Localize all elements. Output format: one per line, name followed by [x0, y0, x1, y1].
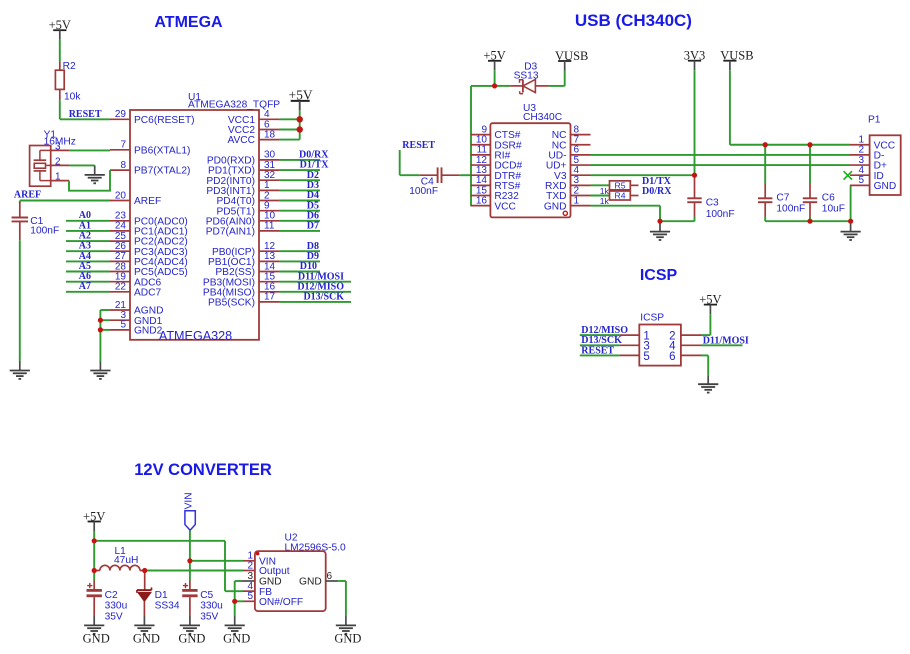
svg-text:R5: R5	[615, 180, 626, 190]
svg-text:RESET: RESET	[402, 140, 435, 151]
svg-text:17: 17	[264, 292, 276, 303]
svg-text:10k: 10k	[64, 91, 81, 102]
svg-text:ON#/OFF: ON#/OFF	[259, 597, 303, 608]
svg-text:GND: GND	[334, 632, 361, 646]
svg-text:PB5(SCK): PB5(SCK)	[208, 298, 255, 309]
svg-text:A7: A7	[79, 281, 91, 292]
svg-text:8: 8	[120, 160, 126, 171]
svg-text:D1: D1	[155, 590, 168, 601]
svg-text:12V CONVERTER: 12V CONVERTER	[134, 461, 272, 479]
svg-text:5: 5	[858, 175, 864, 186]
svg-text:C7: C7	[776, 192, 789, 203]
svg-text:SS13: SS13	[514, 71, 539, 82]
svg-text:D7: D7	[307, 221, 319, 232]
svg-text:PC6(RESET): PC6(RESET)	[134, 115, 195, 126]
svg-text:GND: GND	[133, 632, 160, 646]
svg-text:R2: R2	[63, 61, 76, 72]
svg-text:ICSP: ICSP	[640, 313, 664, 324]
svg-text:2: 2	[55, 156, 61, 167]
svg-text:6: 6	[327, 571, 333, 582]
svg-text:AREF: AREF	[14, 190, 41, 201]
svg-text:D0/RX: D0/RX	[642, 186, 672, 197]
svg-text:GND: GND	[299, 577, 322, 588]
svg-text:29: 29	[115, 109, 127, 120]
svg-text:35V: 35V	[200, 611, 218, 622]
svg-text:100nF: 100nF	[409, 186, 438, 197]
svg-text:GND: GND	[83, 632, 110, 646]
svg-text:PD7(AIN1): PD7(AIN1)	[206, 227, 255, 238]
svg-text:5: 5	[643, 351, 649, 363]
svg-text:5: 5	[247, 591, 253, 602]
svg-text:SS34: SS34	[155, 601, 180, 612]
svg-text:AVCC: AVCC	[227, 135, 255, 146]
svg-text:330u: 330u	[105, 601, 128, 612]
svg-text:6: 6	[669, 351, 675, 363]
svg-text:D13/SCK: D13/SCK	[303, 292, 344, 303]
svg-text:35V: 35V	[105, 611, 123, 622]
svg-text:ATMEGA328: ATMEGA328	[159, 329, 232, 343]
svg-text:USB (CH340C): USB (CH340C)	[575, 11, 692, 30]
svg-text:GND2: GND2	[134, 326, 163, 337]
svg-text:PB6(XTAL1): PB6(XTAL1)	[134, 145, 190, 156]
svg-text:100nF: 100nF	[706, 209, 735, 220]
svg-text:330u: 330u	[200, 601, 223, 612]
svg-text:16: 16	[476, 195, 488, 206]
svg-text:Output: Output	[259, 566, 290, 577]
svg-text:10uF: 10uF	[822, 204, 845, 215]
svg-text:1: 1	[55, 172, 61, 183]
svg-text:GND: GND	[544, 201, 567, 212]
svg-text:RESET: RESET	[581, 345, 614, 356]
svg-text:5: 5	[120, 320, 126, 331]
svg-text:C5: C5	[200, 590, 213, 601]
svg-text:AREF: AREF	[134, 196, 161, 207]
svg-text:100nF: 100nF	[776, 204, 805, 215]
svg-text:ADC7: ADC7	[134, 287, 162, 298]
svg-text:ATMEGA: ATMEGA	[154, 14, 223, 31]
svg-text:1: 1	[574, 195, 580, 206]
svg-text:P1: P1	[868, 115, 881, 126]
svg-text:20: 20	[115, 190, 127, 201]
svg-text:CH340C: CH340C	[523, 112, 562, 123]
svg-text:D11/MOSI: D11/MOSI	[703, 335, 749, 346]
svg-text:GND: GND	[178, 632, 205, 646]
svg-text:C3: C3	[706, 198, 719, 209]
svg-text:ICSP: ICSP	[640, 267, 678, 284]
svg-text:R4: R4	[615, 190, 626, 200]
svg-text:VIN: VIN	[183, 492, 194, 509]
svg-text:VCC: VCC	[494, 201, 516, 212]
svg-text:C6: C6	[822, 192, 835, 203]
svg-text:100nF: 100nF	[30, 226, 59, 237]
svg-text:RESET: RESET	[69, 109, 102, 120]
svg-text:3: 3	[55, 141, 61, 152]
svg-text:2: 2	[247, 560, 253, 571]
svg-text:GND: GND	[223, 632, 250, 646]
svg-text:22: 22	[115, 282, 127, 293]
svg-text:C2: C2	[105, 590, 118, 601]
svg-text:PB7(XTAL2): PB7(XTAL2)	[134, 166, 190, 177]
svg-text:GND: GND	[874, 181, 897, 192]
svg-text:7: 7	[120, 140, 126, 151]
svg-text:18: 18	[264, 129, 276, 140]
svg-text:47uH: 47uH	[114, 555, 138, 566]
svg-text:11: 11	[264, 221, 275, 232]
